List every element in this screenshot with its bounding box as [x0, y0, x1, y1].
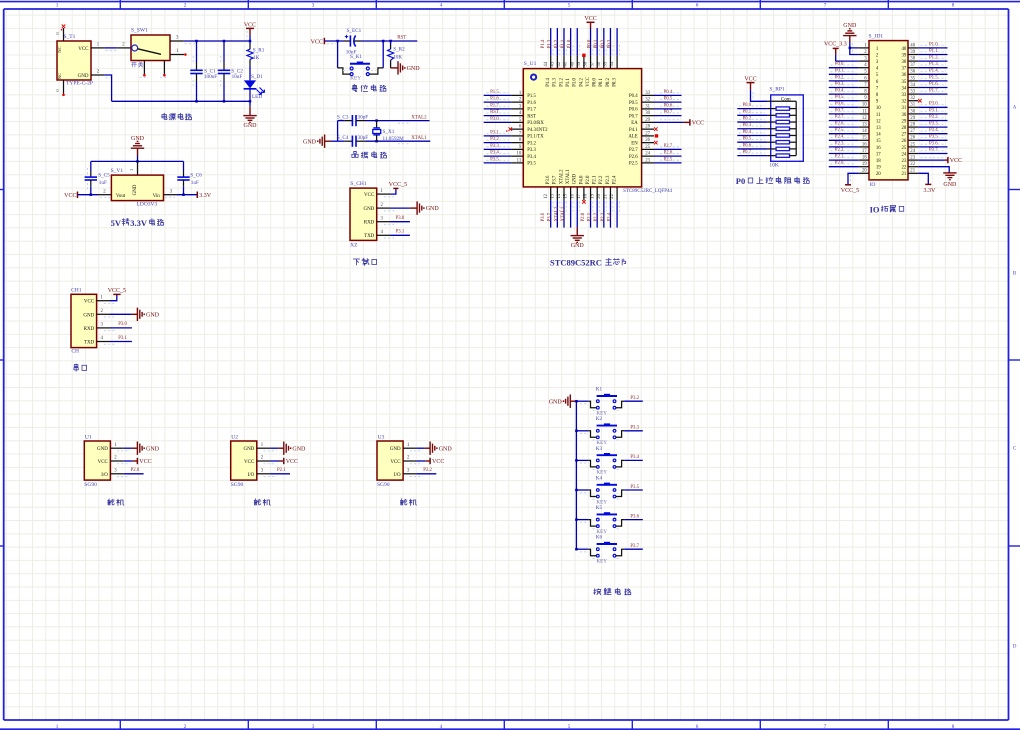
wire	[829, 166, 859, 168]
U1 pin 44 stub	[550, 56, 552, 69]
wire	[918, 73, 947, 75]
wire	[484, 121, 511, 123]
svg-text:40: 40	[902, 47, 907, 52]
JD1 pin 10	[859, 106, 869, 108]
S_CH1 pin 2	[377, 207, 390, 209]
svg-text:GND: GND	[426, 206, 440, 212]
svg-text:VCC: VCC	[244, 460, 255, 465]
svg-text:17: 17	[876, 152, 881, 157]
svg-text:GND: GND	[243, 447, 254, 452]
svg-text:GND: GND	[573, 173, 578, 184]
svg-text:P2.1: P2.1	[588, 212, 593, 221]
svg-text:31: 31	[902, 106, 907, 111]
svg-text:S_C5: S_C5	[98, 172, 110, 178]
U1 pin 10 stub	[511, 155, 523, 157]
svg-text:VCC: VCC	[950, 158, 962, 164]
S_SW1 pin 1	[170, 54, 184, 56]
servo U2 SG90	[231, 435, 257, 488]
svg-text:31: 31	[910, 103, 915, 108]
svg-text:S_X1: S_X1	[383, 129, 395, 135]
U1 pin 5 stub	[511, 121, 523, 123]
wire	[918, 146, 947, 148]
svg-text:GND: GND	[571, 243, 585, 249]
wire	[829, 100, 859, 102]
junction	[90, 193, 93, 196]
svg-text:35: 35	[902, 80, 907, 85]
svg-text:10uF: 10uF	[232, 74, 243, 80]
svg-text:28: 28	[902, 126, 907, 131]
svg-text:4: 4	[440, 2, 443, 8]
svg-text:P0.6: P0.6	[629, 108, 638, 113]
wire top rail VCC	[184, 40, 250, 42]
JD1 pin 17	[859, 153, 869, 155]
S_T1 pin bottom (0)	[63, 80, 65, 94]
svg-text:GND: GND	[146, 312, 160, 318]
U3 pin 1	[403, 447, 416, 449]
svg-text:K6: K6	[596, 535, 603, 541]
wire pin 22 to GND	[918, 167, 949, 172]
svg-text:VCC: VCC	[432, 459, 444, 465]
svg-text:29: 29	[910, 116, 915, 121]
svg-text:5: 5	[568, 2, 571, 8]
svg-text:S_T1: S_T1	[64, 34, 76, 40]
svg-text:33: 33	[910, 90, 915, 95]
wire key to P3.4	[624, 459, 643, 461]
svg-text:P3.1: P3.1	[396, 230, 405, 235]
port 3.3V	[196, 192, 198, 199]
svg-text:27: 27	[902, 133, 907, 138]
wire P3.1	[110, 341, 132, 343]
wire	[737, 128, 767, 130]
svg-text:NC: NC	[57, 46, 62, 52]
resistor pack S_RP1 10K	[767, 87, 803, 169]
no-ERC pin 27	[655, 134, 658, 137]
U1 pin 31 stub	[642, 108, 654, 110]
wire	[737, 108, 767, 110]
svg-text:P2.0: P2.0	[131, 468, 140, 473]
wire P2.1	[270, 473, 290, 475]
JD1 pin 28	[908, 126, 918, 128]
svg-text:24: 24	[910, 149, 915, 154]
svg-text:P2.4: P2.4	[608, 212, 613, 221]
svg-text:17: 17	[862, 149, 867, 154]
junction	[575, 400, 578, 403]
svg-text:VCC_5: VCC_5	[841, 188, 859, 194]
wire	[654, 162, 682, 164]
RP1 pin 4 / resistor 3	[767, 121, 776, 123]
svg-text:39: 39	[902, 53, 907, 58]
svg-text:XTAL2: XTAL2	[411, 115, 427, 120]
JD1 pin 21	[908, 172, 918, 174]
svg-text:S_RP1: S_RP1	[769, 87, 785, 93]
JD1 pin 5	[859, 73, 869, 75]
svg-text:VCC_5: VCC_5	[108, 288, 126, 294]
svg-text:20: 20	[876, 172, 881, 177]
svg-text:P3.2: P3.2	[630, 396, 639, 401]
svg-text:I/O: I/O	[101, 473, 108, 478]
svg-text:34: 34	[902, 86, 907, 91]
wire P3.1	[390, 234, 410, 236]
svg-text:13: 13	[876, 126, 881, 131]
no-ERC pin 39 P4.2	[582, 54, 585, 57]
svg-text:P3.3: P3.3	[630, 426, 639, 431]
wire rail to key	[576, 459, 588, 461]
svg-text:TXD: TXD	[84, 341, 95, 346]
title 舵机	[254, 499, 261, 505]
junction	[223, 40, 226, 43]
svg-text:RXD: RXD	[84, 327, 95, 332]
wire	[484, 135, 511, 137]
wire XTAL2 left	[338, 120, 345, 122]
wire pin1 to VCC_5	[110, 295, 117, 301]
svg-text:K2: K2	[596, 416, 603, 422]
svg-text:GND: GND	[549, 399, 563, 405]
U1 pin 7 stub	[511, 135, 523, 137]
JD1 pin 23	[908, 159, 918, 161]
svg-text:SG90: SG90	[377, 482, 390, 488]
JD1 pin 3	[859, 60, 869, 62]
JD1 pin 38	[908, 60, 918, 62]
wire	[829, 73, 859, 75]
JD1 pin 9	[859, 100, 869, 102]
svg-text:P1.7: P1.7	[527, 108, 536, 113]
JD1 pin 37	[908, 67, 918, 69]
S_CH1 pin 3	[377, 221, 390, 223]
wire	[590, 28, 592, 55]
svg-text:P2.2: P2.2	[423, 468, 432, 473]
wire	[829, 146, 859, 148]
svg-text:3: 3	[312, 2, 315, 8]
wire	[484, 115, 511, 117]
JD1 pin 4	[859, 67, 869, 69]
U1 pin 29 stub	[642, 121, 654, 123]
wire	[918, 139, 947, 141]
svg-text:VCC: VCC	[98, 460, 109, 465]
svg-text:1: 1	[56, 2, 59, 8]
title 舵机	[108, 499, 115, 505]
header S_JD1 (IO)	[869, 33, 909, 188]
JD1 pin 40	[908, 47, 918, 49]
svg-text:40: 40	[910, 43, 915, 48]
power VCC_5	[393, 187, 398, 189]
wire	[829, 133, 859, 135]
JD1 pin 31	[908, 106, 918, 108]
svg-text:33: 33	[902, 93, 907, 98]
JD1 pin 11	[859, 113, 869, 115]
svg-text:1K: 1K	[253, 55, 260, 61]
pushbutton K3 KEY	[588, 446, 624, 476]
svg-text:I/O: I/O	[248, 473, 255, 478]
wire pin 23 to VCC	[918, 159, 945, 161]
svg-text:P1.5: P1.5	[527, 94, 536, 99]
svg-text:VCC: VCC	[84, 300, 95, 305]
wire	[484, 94, 511, 96]
svg-text:P3.6: P3.6	[630, 514, 639, 519]
junction	[389, 40, 392, 43]
JD1 pin 33	[908, 93, 918, 95]
connector S_CH1 (XZ)	[350, 181, 377, 249]
U1 pin 9 stub	[511, 148, 523, 150]
svg-text:1uF: 1uF	[99, 180, 107, 186]
svg-text:GND: GND	[244, 123, 258, 129]
wire	[654, 101, 682, 103]
wire P2.0	[124, 473, 144, 475]
svg-text:XTAL1: XTAL1	[566, 169, 571, 184]
S_SW1 pin 2	[117, 47, 131, 49]
wire	[570, 200, 572, 227]
port VCC	[429, 458, 431, 464]
svg-text:11: 11	[876, 113, 881, 118]
svg-text:15: 15	[876, 139, 881, 144]
svg-text:GND: GND	[83, 313, 94, 318]
wire	[596, 200, 598, 227]
svg-text:CH1: CH1	[71, 288, 82, 294]
S_T1 pin 2 GND	[91, 74, 104, 76]
svg-text:P1.6: P1.6	[527, 101, 536, 106]
wire	[609, 200, 611, 227]
svg-text:25: 25	[910, 142, 915, 147]
wire rail to key	[576, 400, 588, 402]
svg-text:10K: 10K	[769, 163, 779, 169]
svg-text:21: 21	[910, 169, 915, 174]
svg-text:P1.2: P1.2	[559, 78, 564, 87]
svg-text:10K: 10K	[393, 54, 402, 60]
U1 pin 17 stub	[583, 187, 585, 201]
junction	[575, 489, 578, 492]
wire	[616, 200, 618, 227]
svg-text:P1.4: P1.4	[546, 78, 551, 87]
svg-text:U2: U2	[231, 435, 238, 441]
capacitor S_C6 1uF	[177, 171, 202, 195]
JD1 pin 27	[908, 133, 918, 135]
junction	[375, 119, 378, 122]
U1 pin 2 stub	[511, 101, 523, 103]
U2 pin 3	[257, 473, 270, 475]
svg-text:7: 7	[824, 2, 827, 8]
S_CH1 pin 1	[377, 193, 390, 195]
svg-text:P3.5: P3.5	[527, 162, 536, 167]
RP1 pin 7 / resistor 6	[767, 141, 776, 143]
wire RST rail left	[324, 40, 344, 42]
U1 pin 23 stub	[642, 162, 654, 164]
svg-text:IO: IO	[870, 204, 880, 214]
U1 pin 38 stub	[590, 56, 592, 69]
svg-text:TYPE-C-2P: TYPE-C-2P	[66, 81, 93, 87]
wire	[829, 120, 859, 122]
servo U3 SG90	[377, 435, 403, 488]
svg-text:GND: GND	[407, 66, 421, 72]
svg-text:12: 12	[876, 119, 881, 124]
wire	[609, 28, 611, 55]
wire	[829, 153, 859, 155]
U1 pin 26 stub	[642, 142, 654, 144]
JD1 pin 15	[859, 139, 869, 141]
S_T1 pin 1 VCC	[91, 47, 104, 49]
wire P2.2	[416, 473, 436, 475]
wire	[918, 67, 947, 69]
svg-text:GND: GND	[363, 207, 374, 212]
wire	[484, 101, 511, 103]
sheet border frame	[0, 1, 1020, 3]
U1 pin 34 stub	[616, 56, 618, 69]
svg-text:GND: GND	[97, 447, 108, 452]
wire	[737, 155, 767, 157]
wire	[829, 106, 859, 108]
pushbutton S_K1 KEY	[338, 54, 384, 82]
U1 pin 1	[110, 447, 123, 449]
svg-text:23: 23	[902, 159, 907, 164]
svg-text:P1.0: P1.0	[568, 39, 573, 48]
wire	[918, 87, 947, 89]
wire P3.0	[390, 221, 410, 223]
JD1 pin 35	[908, 80, 918, 82]
JD1 pin 25	[908, 146, 918, 148]
capacitor S_C3 30pF	[337, 115, 368, 127]
U2 pin 2	[257, 460, 270, 462]
ground GND (U1 bottom)	[576, 228, 578, 236]
wire XTAL1 left	[331, 140, 345, 142]
svg-text:P0.2: P0.2	[606, 78, 611, 87]
wire pin 21 to 3.3V	[918, 173, 928, 184]
JD1 pin 32	[908, 100, 918, 102]
junction	[336, 40, 339, 43]
S_V1 pin 1 GND	[137, 161, 139, 175]
wire	[918, 47, 947, 49]
svg-text:100nF: 100nF	[204, 74, 217, 80]
U1 pin 15 stub	[570, 187, 572, 201]
wire rail to key	[576, 489, 588, 491]
wire T1 GND to bottom rail	[104, 75, 111, 101]
svg-text:S_C6: S_C6	[190, 172, 202, 178]
svg-text:P0.2: P0.2	[601, 39, 606, 48]
wire pin1 to GND	[124, 447, 132, 449]
svg-text:TXD: TXD	[364, 234, 375, 239]
wire GND to pins 1,2	[850, 42, 859, 48]
wire	[484, 155, 511, 157]
svg-text:12: 12	[862, 116, 867, 121]
S_CH1 pin 4	[377, 234, 390, 236]
svg-text:P3.0/RX: P3.0/RX	[527, 121, 544, 126]
svg-text:STC89C52RC_LQFP44: STC89C52RC_LQFP44	[623, 189, 672, 194]
U1 pin 42 stub	[563, 56, 565, 69]
svg-text:P1.3: P1.3	[553, 78, 558, 87]
svg-text:K5: K5	[596, 505, 603, 511]
wire R1 to LED	[249, 66, 251, 80]
svg-text:KEY: KEY	[350, 76, 361, 82]
wire	[829, 113, 859, 115]
svg-text:P2.4: P2.4	[613, 175, 618, 184]
wire LDO top rail	[91, 160, 184, 162]
U1 pin 6 stub	[511, 128, 523, 130]
S_V1 pin 2 Vout	[98, 194, 111, 196]
svg-text:P3.4: P3.4	[527, 155, 536, 160]
wire Vin to 3.3V	[177, 194, 197, 196]
wire	[829, 67, 859, 69]
svg-text:VCC: VCC	[64, 193, 76, 199]
title 晶振电路	[352, 151, 358, 157]
svg-text:8: 8	[952, 2, 955, 8]
JD1 pin 22	[908, 166, 918, 168]
svg-text:3.3V: 3.3V	[199, 193, 212, 199]
svg-text:30: 30	[902, 113, 907, 118]
svg-text:P3.6: P3.6	[546, 175, 551, 184]
svg-text:19: 19	[876, 166, 881, 171]
wire	[563, 200, 565, 227]
no-ERC pin 17 P4.0	[582, 200, 586, 204]
JD1 pin 29	[908, 120, 918, 122]
svg-text:K1: K1	[596, 387, 603, 393]
svg-text:6: 6	[696, 724, 699, 730]
svg-text:22: 22	[902, 166, 907, 171]
svg-text:EN: EN	[631, 141, 638, 146]
wire	[918, 126, 947, 128]
U1 pin 29 EA wire to VCC	[654, 121, 684, 123]
svg-text:P3.1: P3.1	[118, 336, 127, 341]
svg-text:24: 24	[902, 152, 907, 157]
svg-text:P0.1: P0.1	[594, 39, 599, 48]
wire	[829, 139, 859, 141]
U1 pin 4 stub	[511, 115, 523, 117]
U1 pin 21 stub	[609, 187, 611, 201]
wire	[556, 28, 558, 55]
svg-text:GND: GND	[78, 74, 89, 79]
svg-text:19: 19	[862, 162, 867, 167]
svg-text:XTAL2: XTAL2	[554, 206, 559, 221]
svg-text:14: 14	[876, 133, 881, 138]
ground GND (R2)	[391, 67, 398, 69]
U3 pin 3	[403, 473, 416, 475]
svg-text:P2.2: P2.2	[599, 175, 604, 184]
JD1 pin 12	[859, 120, 869, 122]
svg-text:11: 11	[862, 109, 867, 114]
wire rail to key	[576, 430, 588, 432]
wire pin2 to VCC	[416, 460, 425, 462]
port 3.3V	[925, 183, 931, 185]
svg-text:26: 26	[902, 139, 907, 144]
svg-text:P3.6: P3.6	[541, 212, 546, 221]
CH1 pin 3	[97, 327, 110, 329]
CH1 pin 1	[97, 300, 110, 302]
wire pin 20 to VCC_5	[848, 173, 859, 184]
svg-text:P0.7: P0.7	[629, 114, 638, 119]
JD1 pin 2	[859, 54, 869, 56]
svg-text:P1.1: P1.1	[566, 78, 571, 87]
wire	[918, 80, 947, 82]
svg-text:16: 16	[862, 142, 867, 147]
svg-text:P2.3: P2.3	[606, 175, 611, 184]
svg-text:15: 15	[862, 136, 867, 141]
title 舵机	[400, 499, 407, 505]
svg-text:37: 37	[902, 67, 907, 72]
svg-text:S_K1: S_K1	[350, 54, 362, 60]
svg-text:P4.3/INT2: P4.3/INT2	[527, 128, 548, 133]
JD1 pin 6	[859, 80, 869, 82]
svg-text:P1.3: P1.3	[548, 39, 553, 48]
U1 pin 3	[110, 473, 123, 475]
wire	[654, 94, 682, 96]
svg-text:K3: K3	[596, 446, 603, 452]
junction	[382, 40, 385, 43]
resistor S_R1 1K	[247, 41, 265, 66]
wire	[918, 133, 947, 135]
wire rail to key	[576, 519, 588, 521]
wire pin1 to GND	[270, 447, 278, 449]
U1 pin 12 stub	[550, 187, 552, 201]
U1 pin 13 stub	[556, 187, 558, 201]
S_V1 pin 3 Vin	[164, 194, 178, 196]
no-ERC marker pin 6	[509, 127, 513, 131]
U1 pin 40 stub	[576, 56, 578, 69]
